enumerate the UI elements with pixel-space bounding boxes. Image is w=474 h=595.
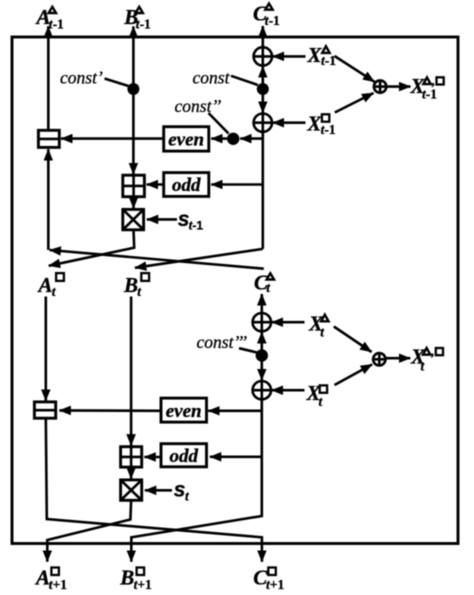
wire even box to half box: [61, 137, 164, 140]
box odd (bottom): [161, 444, 207, 467]
svg-text:t+1: t+1: [266, 577, 284, 592]
wire times-box output diagonal to A_t: [49, 230, 135, 266]
wire A_t down into bottom half box: [44, 297, 47, 401]
wire odd line bottom from C column to odd box: [210, 455, 262, 458]
svg-text:t-1: t-1: [422, 86, 437, 101]
wire bottom plus-box down into times-box: [130, 467, 133, 479]
wire C column down from const dot into xor2: [261, 89, 264, 113]
label C_t: [254, 270, 274, 295]
node const dot on C column: [257, 83, 269, 95]
wire diagonal X_t-1^D to xor3: [335, 56, 375, 82]
wire X_t^S into xor5: [272, 389, 305, 392]
svg-text:even: even: [166, 401, 202, 422]
node const' dot on B column: [127, 83, 139, 95]
label A_t: [37, 273, 64, 299]
wire bottom C column to B_t+1 stub: [131, 399, 261, 562]
xor2 on C column: [254, 114, 272, 132]
wire odd box into bottom plus-box: [144, 456, 161, 459]
svg-text:const’’: const’’: [175, 96, 222, 116]
xor1 on C column: [254, 47, 272, 65]
svg-text:t-1: t-1: [265, 13, 280, 28]
svg-text:even: even: [168, 130, 204, 151]
wire xor6 to X_t^DS: [386, 357, 410, 360]
svg-text:t+1: t+1: [134, 577, 152, 592]
wire up-arrow from const''' dot into xor4 bottom: [260, 332, 263, 350]
svg-text:s: s: [174, 479, 186, 502]
pointer line const to dot: [231, 76, 258, 85]
box times (bottom multiply): [121, 480, 142, 500]
box even (bottom): [161, 398, 207, 422]
label s_t-1: [178, 208, 204, 233]
svg-text:odd: odd: [169, 446, 198, 467]
wire odd box into plus-box: [147, 183, 164, 186]
wire even line from C column to const'' dot: [240, 137, 263, 140]
wire C column diagonal to B_t: [135, 249, 263, 268]
wire diagonal X_t^S to xor6: [335, 364, 373, 385]
label X_t^S: [306, 381, 328, 409]
box plus (bottom 2x2 adder): [121, 447, 142, 467]
box times (top multiply): [123, 209, 144, 229]
wire diagonal X_t^D to xor6: [334, 327, 372, 353]
svg-text:B: B: [123, 273, 138, 297]
label C_t-1: [253, 1, 280, 28]
wire X_t^D into xor4: [272, 321, 305, 324]
wire even box to bottom half box: [59, 409, 161, 412]
svg-text:A: A: [34, 566, 50, 590]
label X_t^DS: [410, 344, 443, 374]
node const''' dot: [256, 349, 268, 361]
svg-text:t-1: t-1: [136, 16, 151, 31]
box even (top): [164, 127, 209, 151]
label B_t: [123, 273, 149, 299]
label X_t-1^D: [307, 43, 337, 68]
wire A column up to A_t-1: [47, 26, 50, 130]
wire X_t-1^S into xor2: [273, 121, 306, 124]
svg-text:,: ,: [430, 344, 434, 359]
box plus (top 2x2 adder): [123, 175, 145, 197]
svg-text:const: const: [193, 68, 231, 88]
label X_t^D: [308, 312, 329, 340]
wire C_t up-left into A column bottom: [50, 250, 264, 269]
wire xor3 to X_t-1^DS: [387, 85, 411, 88]
wire diagonal X_t-1^S to xor3: [335, 93, 374, 113]
pointer line const' to dot: [105, 79, 129, 87]
svg-text:t-1: t-1: [189, 218, 204, 233]
label X_t-1^DS: [410, 73, 444, 101]
label X_t-1^S: [306, 112, 335, 138]
wire B column up to B_t-1: [132, 26, 135, 89]
svg-text:t-1: t-1: [49, 16, 64, 31]
wire odd line from C column to odd box: [211, 183, 263, 186]
wire up-arrow from const dot into xor1 bottom: [261, 66, 264, 84]
wire C column segment xor2 down to crossing bend: [261, 132, 264, 249]
wire plus-box down into times-box: [132, 197, 135, 209]
wire even line bottom from C column into even box: [208, 409, 262, 412]
wire X_t-1^D into xor1: [273, 55, 306, 58]
label A_t-1: [35, 5, 65, 32]
wire s_t into bottom times-box: [145, 489, 172, 492]
wire A column rising into half box: [47, 149, 50, 250]
svg-text:t-1: t-1: [321, 122, 336, 137]
pointer line const''' to dot: [239, 348, 257, 352]
wire C column down from const''' dot into xor5: [260, 356, 263, 381]
node const'' dot: [227, 133, 239, 145]
svg-text:A: A: [37, 273, 53, 297]
xor3 output combiner: [374, 80, 386, 92]
wire C column up from xor1 to C_t-1: [261, 26, 264, 47]
label s_t: [174, 479, 190, 504]
wire B column down from const' dot into plus-box: [132, 89, 135, 174]
box half (bottom split box): [34, 402, 55, 418]
wire s_t-1 into times-box: [147, 218, 177, 221]
pointer line const'' to dot: [209, 113, 229, 134]
wire bottom A column from half box to C_t+1 stub: [46, 418, 262, 562]
svg-text:B: B: [119, 566, 134, 590]
label C_t+1: [253, 566, 284, 592]
wire B_t down into bottom plus-box: [130, 297, 133, 446]
xor4 on bottom C column: [253, 313, 271, 331]
svg-text:t+1: t+1: [49, 577, 67, 592]
svg-text:odd: odd: [172, 175, 201, 196]
box half (top split box): [38, 130, 59, 147]
xor5 on bottom C column: [253, 381, 271, 399]
svg-text:const’: const’: [60, 68, 103, 88]
label A_t+1: [34, 566, 67, 592]
label B_t-1: [123, 5, 151, 32]
box odd (top): [164, 173, 209, 197]
wire bottom C column up into C_t: [260, 294, 263, 313]
wire bottom times-box output to A_t+1 stub: [47, 500, 131, 562]
xor6 output combiner: [373, 353, 385, 365]
svg-text:t-1: t-1: [321, 53, 336, 68]
wire const'' dot into even box: [211, 137, 227, 140]
label B_t+1: [119, 566, 152, 592]
